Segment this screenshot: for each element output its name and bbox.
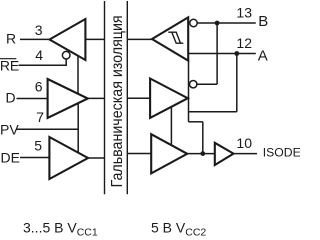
svg-text:7: 7 [36, 109, 44, 125]
wire node A line [188, 53, 256, 55]
svg-text:D: D [6, 90, 16, 106]
svg-text:10: 10 [236, 135, 252, 151]
wire barrier to bus driver [127, 97, 150, 99]
svg-text:B: B [258, 13, 268, 30]
wire main vertical receiver-to-driver apex [188, 60, 190, 122]
wire driver D output to barrier [88, 97, 105, 99]
svg-text:RE: RE [0, 58, 19, 74]
wire pin7 PV [16, 128, 78, 130]
inversion bubble on bus driver output [190, 81, 197, 88]
wire enable vertical R-to-D [77, 56, 79, 94]
wire driver bubble to B [197, 83, 217, 85]
wire node B line [197, 22, 256, 24]
op-amp driver buffer left (D) [48, 79, 88, 118]
junction dot ISODE node [200, 151, 205, 156]
svg-text:R: R [6, 30, 16, 46]
svg-text:Гальваническая изоляция: Гальваническая изоляция [109, 15, 126, 187]
svg-text:PV: PV [0, 121, 19, 137]
svg-text:13: 13 [236, 5, 252, 21]
junction dot node A [234, 51, 239, 56]
svg-text:A: A [258, 48, 268, 65]
wire node A vertical [236, 54, 238, 112]
hysteresis symbol [168, 32, 183, 43]
svg-text:12: 12 [236, 35, 252, 51]
wire barrier to bus receiver [127, 38, 152, 40]
wire pin5 DE input [20, 157, 49, 159]
wire pin3 R input [20, 38, 51, 40]
svg-text:4: 4 [35, 47, 43, 63]
op-amp bus receiver with hysteresis [152, 17, 188, 60]
wire barrier to enable buffer [127, 153, 151, 155]
wire pin6 D input [17, 98, 48, 100]
wire DE output to barrier [88, 157, 105, 159]
svg-text:5: 5 [34, 138, 42, 154]
op-amp enable buffer right [151, 134, 187, 173]
svg-text:6: 6 [35, 79, 43, 95]
wire A tap horizontal [189, 111, 237, 113]
wire pin4 RE [19, 59, 67, 65]
isolation barrier left line [104, 1, 106, 194]
op-amp enable buffer left (DE) [49, 137, 88, 179]
wire jog horizontal [189, 121, 203, 123]
wire node B vertical [216, 23, 218, 84]
wire enable vertical D-to-DE [77, 103, 79, 153]
op-amp small buffer to ISODE [215, 143, 234, 165]
svg-text:DE: DE [1, 150, 20, 166]
op-amp bus driver [150, 79, 188, 118]
wire jog vertical to ISODE node [202, 122, 204, 154]
inversion bubble on bus receiver input B [190, 19, 197, 26]
isolation barrier right line [126, 1, 128, 194]
enable bubble on RE receiver [62, 51, 70, 59]
op-amp receiver buffer left (R) [50, 19, 86, 60]
svg-text:ISODE: ISODE [263, 145, 300, 159]
svg-text:3: 3 [35, 22, 43, 38]
junction dot node B [215, 21, 220, 26]
wire ISODE line [187, 153, 215, 155]
wire enable vertical right side [170, 106, 172, 146]
wire pin10 ISODE output [234, 153, 258, 155]
wire receiver output to barrier [85, 38, 104, 40]
